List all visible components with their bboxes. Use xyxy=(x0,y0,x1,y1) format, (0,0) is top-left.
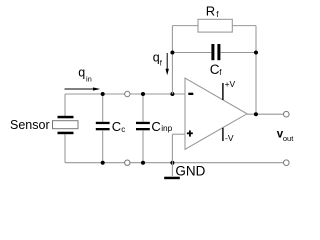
wire plus input to ground xyxy=(172,133,185,135)
wire feedback right vertical xyxy=(255,26,257,115)
svg-text:R: R xyxy=(206,4,215,19)
wire top rail (sensor to op-amp inverting input) xyxy=(65,93,186,95)
wire bottom ground rail xyxy=(65,162,286,164)
resistor Rf xyxy=(198,19,232,32)
arrow q_in (charge flow into amplifier) xyxy=(65,87,101,90)
svg-text:+V: +V xyxy=(225,79,236,89)
wire feedback left vertical xyxy=(171,26,173,94)
op-amp plus input sign xyxy=(187,130,193,136)
wire feedback top loop left xyxy=(172,25,198,27)
svg-text:out: out xyxy=(283,134,294,143)
node junction dot bottom rail at ground xyxy=(170,161,174,165)
sensor (piezoelectric element) xyxy=(53,116,79,134)
terminal open circle bottom rail xyxy=(125,160,130,165)
op-amp minus input sign xyxy=(188,93,193,95)
node junction dot bottom rail at Cc xyxy=(101,161,105,165)
svg-text:inp: inp xyxy=(161,123,172,133)
svg-text:c: c xyxy=(121,125,125,134)
op-amp U1 triangle xyxy=(185,78,247,149)
arrow q_f (feedback charge, pointing down) xyxy=(166,53,169,75)
svg-text:in: in xyxy=(86,75,92,84)
wire sensor bottom lead xyxy=(64,134,66,163)
ground stub xyxy=(171,163,173,176)
terminal open circle top rail xyxy=(125,91,130,96)
wire op-amp output xyxy=(247,113,286,115)
wire sensor top lead xyxy=(64,94,66,116)
svg-text:q: q xyxy=(78,66,85,80)
svg-text:C: C xyxy=(210,62,220,77)
capacitor Cc (cable capacitance) xyxy=(96,94,110,163)
op-amp -V supply stub xyxy=(222,128,224,141)
wire feedback top loop right xyxy=(232,25,256,27)
terminal open circle bottom right xyxy=(284,160,290,166)
svg-text:C: C xyxy=(151,119,160,134)
op-amp +V supply stub xyxy=(222,83,224,100)
node junction dot Cf wire left xyxy=(170,51,174,55)
node junction dot Cf wire right xyxy=(254,51,258,55)
terminal open circle output vout xyxy=(284,111,290,117)
svg-text:GND: GND xyxy=(175,163,205,178)
svg-text:Sensor: Sensor xyxy=(10,118,50,132)
wire Cf right xyxy=(220,52,256,54)
wire Cf left xyxy=(172,52,211,54)
node junction dot top rail at Cc xyxy=(101,92,105,96)
capacitor Cinp (input capacitance) xyxy=(136,94,150,163)
node junction dot top rail at Cinp xyxy=(141,92,145,96)
capacitor Cf xyxy=(211,44,220,60)
svg-text:-V: -V xyxy=(225,133,234,143)
svg-text:C: C xyxy=(112,119,121,134)
node junction dot bottom rail at Cinp xyxy=(141,161,145,165)
ground bar symbol xyxy=(164,177,180,180)
node junction dot output xyxy=(254,112,258,116)
svg-text:q: q xyxy=(153,50,160,64)
node junction dot top rail at feedback xyxy=(170,92,174,96)
